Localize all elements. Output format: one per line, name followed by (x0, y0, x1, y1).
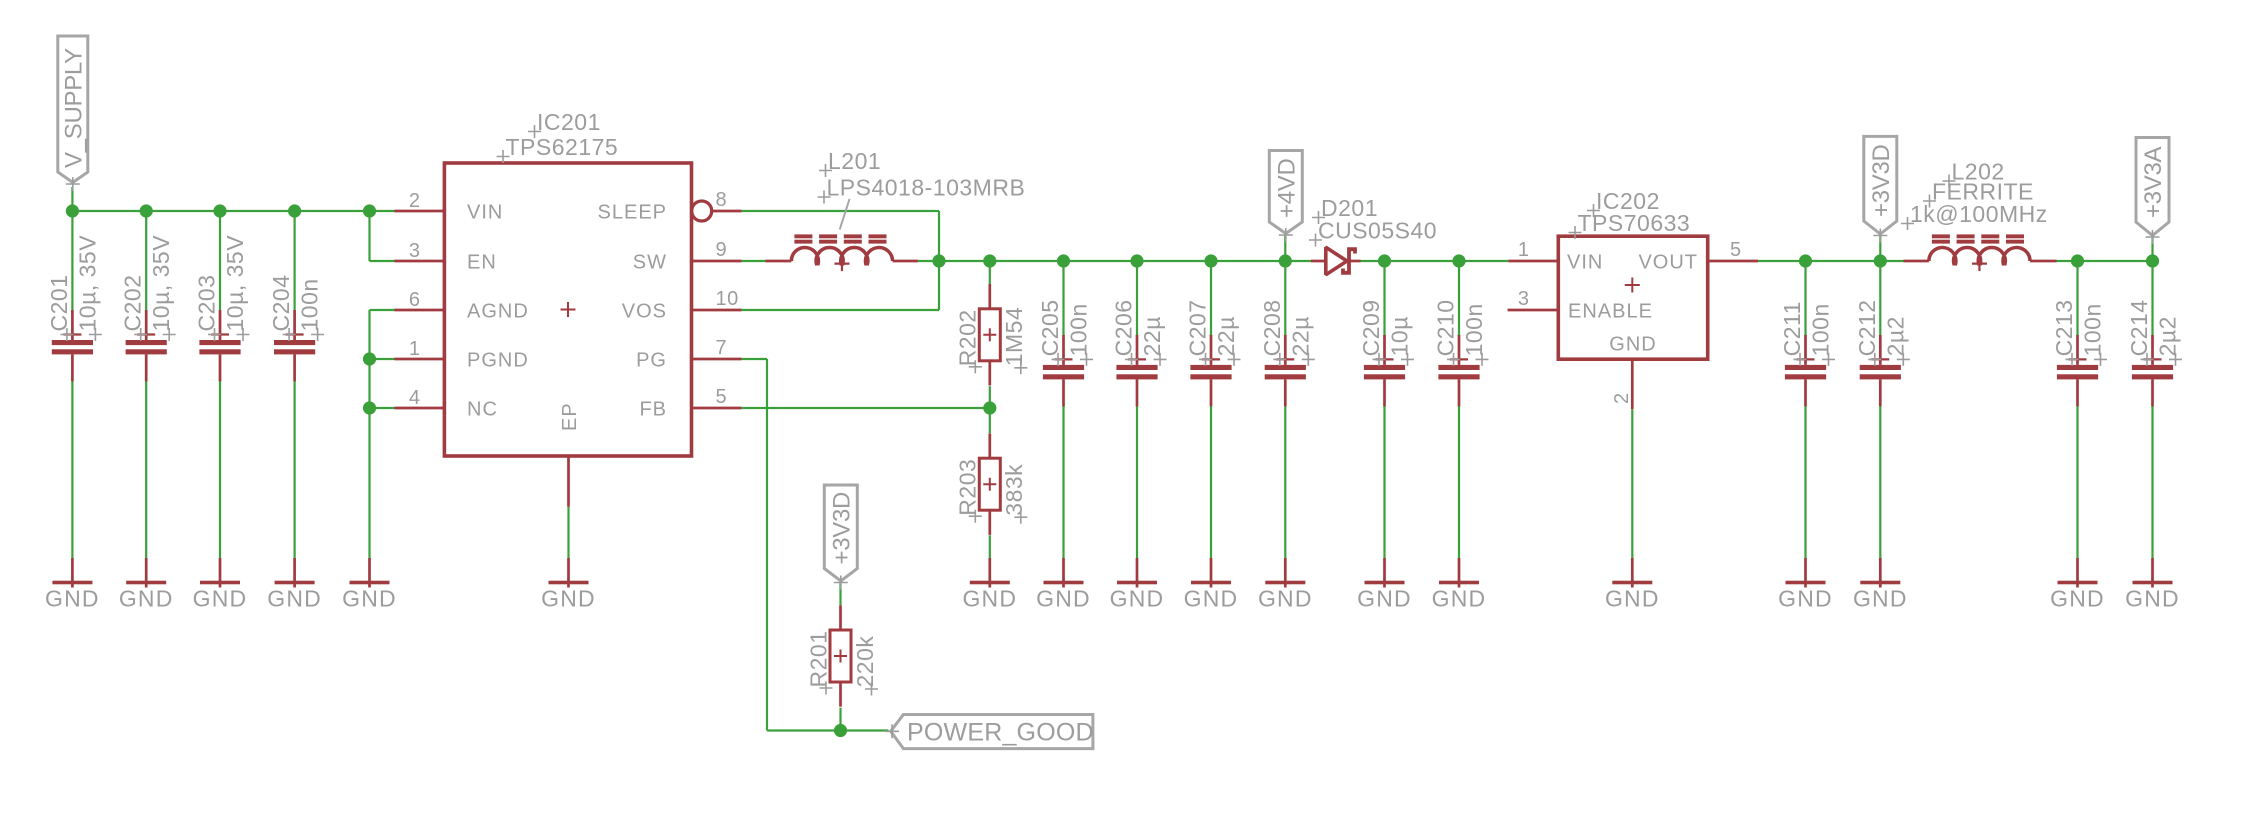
svg-text:GND: GND (541, 585, 596, 611)
wire +4VD flag stub (1284, 236, 1286, 262)
svg-text:GND: GND (1853, 585, 1908, 611)
svg-text:PGND: PGND (467, 349, 529, 371)
wire +3V3A flag stub (2151, 238, 2153, 262)
svg-text:EN: EN (467, 251, 497, 273)
pin 1 VIN of IC202 (1508, 239, 1603, 273)
svg-text:C208: C208 (1259, 299, 1285, 356)
pin 9 SW of IC201 (633, 239, 742, 273)
ground at x=1137 (1110, 558, 1165, 611)
node +4VD/C208 tap (1279, 254, 1292, 267)
wire C208 bottom drop to GND (1284, 406, 1286, 558)
label L202 name (1943, 159, 2005, 188)
wire VOS horizontal (742, 309, 939, 311)
wire V_SUPPLY net horizontal rail (72, 210, 394, 212)
svg-text:C213: C213 (2051, 299, 2077, 356)
node C202 tap (140, 204, 153, 217)
capacitor C204 100n (268, 275, 324, 382)
power flag +4VD (1269, 151, 1302, 243)
ground at x=1459 (1432, 558, 1487, 611)
svg-text:GND: GND (45, 585, 100, 611)
svg-text:GND: GND (267, 585, 322, 611)
wire C201 top drop (71, 211, 73, 311)
svg-text:L201: L201 (828, 148, 881, 174)
node V_SUPPLY/C201 (66, 204, 79, 217)
label IC202 name (1587, 188, 1660, 217)
svg-text:2: 2 (1611, 392, 1633, 404)
wire C211 bottom drop to GND (1804, 406, 1806, 558)
wire C202 top drop (145, 211, 147, 311)
svg-text:C212: C212 (1854, 299, 1880, 356)
inductor L202 ferrite (1904, 234, 2057, 271)
svg-text:2µ2: 2µ2 (2155, 316, 2181, 356)
svg-text:1k@100MHz: 1k@100MHz (1910, 201, 2048, 227)
wire C206 bottom drop to GND (1136, 406, 1138, 558)
node +3V3D/C212 tap (1874, 254, 1887, 267)
ground at x=2077.5 (2050, 558, 2105, 611)
wire IC202 GND pin drop (1631, 409, 1633, 558)
svg-text:3: 3 (1518, 288, 1530, 310)
svg-text:10µ, 35V: 10µ, 35V (222, 235, 248, 332)
wire VOUT rail (1758, 260, 1904, 262)
pin 1 PGND of IC201 (394, 338, 528, 371)
svg-text:3: 3 (409, 240, 421, 262)
wire C202 bottom drop to GND (145, 381, 147, 558)
node C211 tap (1799, 254, 1812, 267)
ground at x=294.6 (267, 558, 322, 611)
svg-text:GND: GND (1432, 585, 1487, 611)
svg-text:POWER_GOOD: POWER_GOOD (907, 719, 1094, 747)
ground at x=1805.5 (1778, 558, 1833, 611)
ground at x=2152.5 (2125, 558, 2180, 611)
pin 3 ENABLE of IC202 (1508, 288, 1653, 322)
wire L202 out rail (2057, 260, 2153, 262)
svg-text:GND: GND (1778, 585, 1833, 611)
ground at x=989.8 (962, 558, 1017, 611)
resistor R202 1M54 (955, 284, 1028, 385)
wire AGND-PGND-NC vertical to GND (368, 310, 370, 558)
svg-text:IC201: IC201 (537, 109, 601, 135)
svg-text:GND: GND (119, 585, 174, 611)
svg-text:220k: 220k (852, 636, 878, 688)
svg-text:NC: NC (467, 398, 498, 420)
svg-text:22µ: 22µ (1213, 316, 1239, 356)
svg-text:C210: C210 (1433, 299, 1459, 356)
svg-text:2: 2 (409, 190, 421, 212)
power flag V_SUPPLY (58, 36, 88, 191)
wire SLEEP horizontal (742, 210, 939, 212)
svg-text:R203: R203 (955, 459, 981, 516)
capacitor C210 100n (1433, 299, 1489, 406)
pin 5 VOUT of IC202 (1638, 239, 1758, 273)
wire +3V3D output flag stub (1879, 236, 1881, 261)
svg-text:10µ, 35V: 10µ, 35V (148, 235, 174, 332)
wire R203 top stub (989, 408, 991, 433)
node NC junction (363, 401, 376, 414)
svg-text:4: 4 (409, 387, 421, 409)
node SW/L201 out (932, 254, 945, 267)
node C207 tap (1204, 254, 1217, 267)
capacitor C206 22u (1111, 299, 1167, 406)
wire C207 top drop (1210, 261, 1212, 336)
pin 2 GND of IC202 (1609, 334, 1656, 410)
capacitor C213 100n (2051, 299, 2107, 406)
svg-text:100n: 100n (1808, 303, 1834, 356)
wire C212 bottom drop to GND (1879, 406, 1881, 558)
svg-text:C211: C211 (1779, 301, 1805, 356)
capacitor C211 100n (1779, 301, 1835, 406)
ground at x=1384.5 (1357, 558, 1412, 611)
svg-text:C204: C204 (268, 275, 294, 332)
capacitor C209 10u (1358, 299, 1414, 406)
svg-text:R202: R202 (955, 309, 981, 366)
svg-text:+4VD: +4VD (1274, 158, 1301, 218)
node C210 tap (1452, 254, 1465, 267)
node R202 tap (983, 254, 996, 267)
power flag +3V3A (2136, 138, 2169, 245)
wire SW to L201 (742, 260, 766, 262)
resistor R203 383k (955, 434, 1028, 535)
svg-text:5: 5 (716, 386, 728, 408)
pin 7 PG of IC201 (636, 337, 742, 371)
wire PG bottom horizontal (767, 729, 841, 731)
wire C212 top drop (1879, 261, 1881, 336)
pin 4 NC of IC201 (394, 387, 497, 420)
ground at x=220 (193, 558, 248, 611)
power flag +3V3D output (1864, 136, 1897, 242)
power flag +3V3D above R201 (824, 485, 857, 590)
ground at x=1880.3 (1853, 558, 1908, 611)
wire R202 bottom stub (989, 386, 991, 408)
pin 3 EN of IC201 (394, 240, 496, 273)
wire V_SUPPLY flag stub (71, 187, 73, 211)
svg-text:1M54: 1M54 (1001, 307, 1027, 367)
svg-text:C201: C201 (46, 275, 72, 332)
svg-text:1: 1 (409, 338, 421, 360)
svg-text:+3V3D: +3V3D (829, 492, 856, 565)
svg-text:C206: C206 (1111, 299, 1137, 356)
node +3V3A/C214 tap (2146, 254, 2159, 267)
wire R201 bottom stub (839, 708, 841, 731)
wire C209 top drop (1383, 261, 1385, 336)
pin 8 SLEEP of IC201 (598, 189, 742, 223)
svg-text:LPS4018-103MRB: LPS4018-103MRB (827, 175, 1026, 201)
wire C209 bottom drop to GND (1383, 406, 1385, 558)
label L202 value 1k@100MHz (1901, 201, 2048, 230)
svg-text:2µ2: 2µ2 (1882, 316, 1908, 356)
node C205 tap (1057, 254, 1070, 267)
svg-text:22µ: 22µ (1287, 316, 1313, 356)
wire IC201 EP to GND (567, 507, 569, 558)
wire C207 bottom drop to GND (1210, 406, 1212, 558)
svg-text:C207: C207 (1185, 299, 1211, 356)
label IC201 value TPS62175 (497, 134, 619, 163)
pin 6 AGND of IC201 (394, 289, 528, 322)
label D201 name (1312, 195, 1378, 224)
svg-text:GND: GND (342, 585, 397, 611)
svg-text:10: 10 (716, 288, 739, 310)
wire R202 top stub (989, 261, 991, 285)
wire C210 top drop (1458, 261, 1460, 336)
node C206 tap (1130, 254, 1143, 267)
wire C203 top drop (219, 211, 221, 311)
svg-text:100n: 100n (297, 278, 323, 331)
wire C206 top drop (1136, 261, 1138, 336)
svg-text:6: 6 (409, 289, 421, 311)
wire EN branch vertical (368, 211, 370, 261)
wire C203 bottom drop to GND (219, 381, 221, 558)
svg-text:EP: EP (559, 402, 581, 431)
svg-text:VOS: VOS (622, 300, 667, 322)
capacitor C208 22u (1259, 299, 1315, 406)
svg-text:SW: SW (633, 251, 667, 273)
wire PG vertical (766, 359, 768, 731)
svg-text:GND: GND (193, 585, 248, 611)
capacitor C212 2u2 (1854, 299, 1910, 406)
ground at x=1211 (1184, 558, 1239, 611)
wire +3V3D flag to R201 top (839, 583, 841, 606)
pin 2 VIN of IC201 (394, 190, 503, 223)
svg-text:GND: GND (1036, 585, 1091, 611)
svg-text:7: 7 (716, 337, 728, 359)
svg-text:TPS70633: TPS70633 (1578, 210, 1691, 236)
pin EP of IC201 (559, 402, 581, 506)
node EN tap (363, 204, 376, 217)
wire C214 bottom drop to GND (2151, 406, 2153, 558)
wire PG horizontal from pin (742, 358, 767, 360)
ground at x=568.5 (541, 558, 596, 611)
svg-text:CUS05S40: CUS05S40 (1318, 218, 1437, 244)
svg-text:FB: FB (639, 398, 667, 420)
svg-text:PG: PG (636, 349, 667, 371)
svg-text:AGND: AGND (467, 300, 529, 322)
svg-text:GND: GND (1258, 585, 1313, 611)
node C204 tap (288, 204, 301, 217)
svg-text:ENABLE: ENABLE (1568, 300, 1653, 322)
node C209 tap (1378, 254, 1391, 267)
wire C201 bottom drop to GND (71, 381, 73, 558)
label IC202 value TPS70633 (1569, 210, 1691, 239)
wire C204 bottom drop to GND (294, 381, 296, 558)
svg-text:5: 5 (1730, 239, 1742, 261)
ground at x=72.4 (45, 558, 100, 611)
svg-text:SLEEP: SLEEP (598, 201, 667, 223)
wire PGND horizontal (370, 358, 395, 360)
capacitor C201 10u 35V (46, 235, 102, 382)
svg-text:VIN: VIN (1567, 251, 1603, 273)
svg-text:383k: 383k (1001, 464, 1027, 516)
wire AGND horizontal (370, 309, 395, 311)
svg-text:GND: GND (1609, 334, 1656, 356)
op-amp IC202 box TPS70633 (1558, 236, 1707, 359)
node POWER_GOOD junction (834, 724, 847, 737)
svg-text:GND: GND (1184, 585, 1239, 611)
inductor L201 (766, 234, 918, 271)
wire D201 to IC202 VIN (1361, 260, 1509, 262)
svg-text:GND: GND (1110, 585, 1165, 611)
capacitor C207 22u (1185, 299, 1241, 406)
label L201 name (819, 148, 881, 177)
svg-text:V_SUPPLY: V_SUPPLY (61, 48, 88, 168)
diode D201 CUS05S40 (1311, 247, 1361, 274)
svg-text:8: 8 (716, 189, 728, 211)
wire C205 bottom drop to GND (1062, 406, 1064, 558)
wire EN branch horizontal (370, 260, 395, 262)
svg-text:C203: C203 (194, 275, 220, 332)
svg-text:GND: GND (962, 585, 1017, 611)
capacitor C203 10u 35V (194, 235, 250, 382)
net label POWER_GOOD (885, 715, 1094, 749)
wire C204 top drop (294, 211, 296, 311)
ground at x=146.2 (119, 558, 174, 611)
ground at x=1063.5 (1036, 558, 1091, 611)
svg-text:9: 9 (716, 239, 728, 261)
node FB junction (983, 401, 996, 414)
node C203 tap (213, 204, 226, 217)
svg-text:22µ: 22µ (1139, 316, 1165, 356)
ground at x=1285.3 (1258, 558, 1313, 611)
wire R203 bottom to GND (989, 535, 991, 558)
svg-text:C214: C214 (2126, 299, 2152, 356)
svg-text:GND: GND (2125, 585, 2180, 611)
ground at x=1632.3 (1605, 558, 1660, 611)
node PGND junction (363, 352, 376, 365)
pin 5 FB of IC201 (639, 386, 741, 420)
label IC201 name (528, 109, 601, 138)
svg-text:GND: GND (1605, 585, 1660, 611)
svg-text:VIN: VIN (467, 201, 503, 223)
node C213 tap (2071, 254, 2084, 267)
wire C205 top drop (1062, 261, 1064, 336)
wire C210 bottom drop to GND (1458, 406, 1460, 558)
wire C208 top drop (1284, 261, 1286, 336)
label L202 value FERRITE (1923, 179, 2034, 208)
svg-text:10µ, 35V: 10µ, 35V (74, 235, 100, 332)
label L201 leader line (840, 199, 850, 230)
wire C211 top drop (1804, 261, 1806, 336)
svg-text:GND: GND (1357, 585, 1412, 611)
svg-text:100n: 100n (2080, 303, 2106, 356)
svg-text:100n: 100n (1461, 303, 1487, 356)
pin 10 VOS of IC201 (622, 288, 742, 322)
op-amp IC201 box TPS62175 (444, 163, 691, 456)
wire C213 top drop (2076, 261, 2078, 336)
svg-text:R201: R201 (805, 631, 831, 688)
capacitor C214 2u2 (2126, 299, 2182, 406)
svg-text:C205: C205 (1037, 299, 1063, 356)
svg-text:10µ: 10µ (1387, 316, 1413, 356)
svg-text:GND: GND (2050, 585, 2105, 611)
svg-text:+3V3A: +3V3A (2140, 146, 2167, 218)
svg-text:1: 1 (1518, 239, 1530, 261)
resistor R201 220k (805, 605, 878, 706)
wire NC horizontal (370, 407, 395, 409)
wire C213 bottom drop to GND (2076, 406, 2078, 558)
svg-text:C209: C209 (1358, 299, 1384, 356)
svg-text:C202: C202 (120, 275, 146, 332)
capacitor C202 10u 35V (120, 235, 176, 382)
capacitor C205 100n (1037, 299, 1093, 406)
svg-text:+3V3D: +3V3D (1868, 144, 1895, 217)
svg-text:VOUT: VOUT (1638, 251, 1698, 273)
label D201 value CUS05S40 (1309, 218, 1437, 247)
wire L201 out rail to D201 (918, 260, 1311, 262)
wire SLEEP-VOS vertical (938, 211, 940, 310)
label L201 value LPS4018-103MRB (818, 175, 1026, 204)
svg-text:100n: 100n (1066, 303, 1092, 356)
wire junction to POWER_GOOD flag (841, 729, 889, 731)
wire C214 top drop (2151, 261, 2153, 336)
svg-text:TPS62175: TPS62175 (506, 134, 619, 160)
wire FB horizontal (742, 407, 990, 409)
ground at x=369.5 (342, 558, 397, 611)
